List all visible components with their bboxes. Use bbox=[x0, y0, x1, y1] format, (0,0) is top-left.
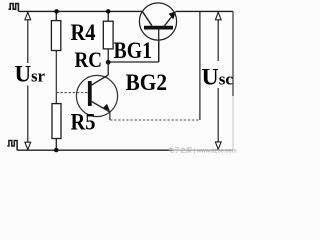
svg-text:R5: R5 bbox=[71, 110, 96, 135]
transistor BG2 base bar bbox=[88, 81, 92, 106]
wire Usr shaft upper bbox=[27, 20, 29, 64]
wire RC bottom lead bbox=[107, 49, 109, 62]
wire Usc shaft upper bbox=[217, 20, 219, 61]
node Usr arrow down (open) bbox=[25, 142, 31, 149]
transistor BG1 base lead bbox=[158, 30, 160, 63]
svg-text:RC: RC bbox=[75, 47, 103, 72]
wire top rail right bbox=[176, 10, 233, 12]
node junction dot top RC bbox=[106, 9, 111, 14]
transistor BG2 emitter arrowhead bbox=[103, 104, 110, 111]
wire RC top lead bbox=[107, 11, 109, 21]
wire R5 bottom lead bbox=[55, 139, 57, 151]
svg-text:BG2: BG2 bbox=[126, 70, 168, 95]
wire top rail left bbox=[18, 10, 143, 12]
svg-text:电子之家 | www.dzsc.com: 电子之家 | www.dzsc.com bbox=[168, 147, 237, 155]
wire Usr shaft lower bbox=[27, 86, 29, 143]
wire BG1 base vertical bbox=[158, 29, 160, 62]
node Usr arrow up (open) bbox=[25, 12, 31, 20]
transistor BG1 collector diagonal bbox=[143, 12, 152, 26]
node Usc arrow up (open) bbox=[215, 12, 221, 20]
transistor BG1 circle bbox=[139, 3, 176, 40]
wire right edge upper bbox=[232, 11, 234, 96]
wire BG2 base lead bbox=[56, 92, 88, 94]
wire R4 top lead bbox=[55, 11, 57, 20]
resistor R5 bbox=[52, 104, 61, 139]
transistor BG2 circle bbox=[76, 75, 117, 116]
node Usc arrow down (open) bbox=[215, 142, 221, 149]
pulse waveform symbol (bottom-left) bbox=[7, 141, 17, 151]
wire R4 to R5 bbox=[55, 51, 57, 104]
wire output horizontal (faint) bbox=[110, 119, 200, 121]
wire bottom rail bbox=[17, 149, 172, 151]
node junction dot bottom bbox=[54, 148, 59, 153]
node junction dot RC/base/collector bbox=[106, 60, 111, 65]
wire Usc shaft lower bbox=[217, 88, 219, 143]
svg-text:R4: R4 bbox=[71, 20, 96, 45]
node junction dot top R4 bbox=[54, 9, 59, 14]
resistor RC bbox=[103, 21, 113, 49]
wire BG2 collector vertical bbox=[107, 62, 109, 75]
svg-text:BG1: BG1 bbox=[114, 38, 153, 63]
wire right edge lower (faint) bbox=[232, 96, 234, 149]
wire BG1 base horizontal bbox=[108, 61, 159, 63]
resistor R4 bbox=[51, 21, 60, 51]
wire BG2 emitter down bbox=[109, 112, 111, 120]
transistor BG1 emitter arrowhead bbox=[169, 11, 177, 19]
transistor BG2 emitter diagonal bbox=[90, 101, 110, 112]
wire output vertical to top rail bbox=[199, 11, 201, 120]
transistor BG1 base bar bbox=[144, 26, 173, 30]
transistor BG2 collector diagonal bbox=[90, 75, 108, 86]
transistor BG1 emitter diagonal bbox=[165, 12, 176, 26]
pulse waveform symbol (top-left input) bbox=[9, 4, 19, 12]
